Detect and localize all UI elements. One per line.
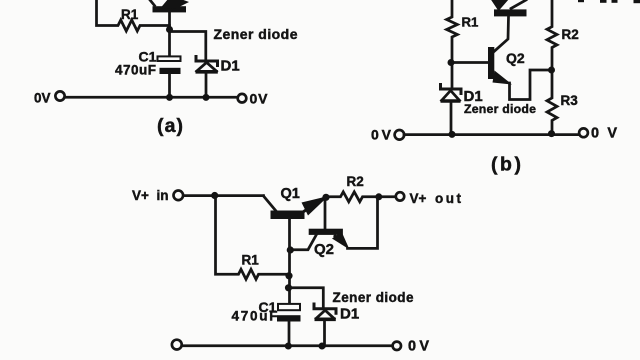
svg-text:R1: R1	[242, 253, 260, 268]
svg-text:0V: 0V	[408, 338, 429, 354]
svg-text:Zener diode: Zener diode	[333, 290, 414, 305]
svg-text:out: out	[435, 191, 462, 206]
svg-text:V+: V+	[132, 188, 149, 203]
svg-text:R2: R2	[562, 27, 579, 42]
svg-text:470uF: 470uF	[115, 63, 156, 78]
svg-text:Zener diode: Zener diode	[214, 26, 298, 42]
svg-text:Q1: Q1	[281, 186, 300, 202]
svg-text:Q2: Q2	[506, 50, 525, 66]
svg-text:R1: R1	[462, 15, 479, 30]
svg-text:(b): (b)	[491, 154, 521, 176]
svg-text:470uF: 470uF	[232, 309, 278, 324]
svg-text:R1: R1	[121, 7, 139, 22]
svg-text:Zener diode: Zener diode	[464, 102, 536, 116]
svg-text:V+: V+	[410, 191, 427, 206]
svg-text:D1: D1	[340, 305, 359, 322]
svg-text:Q2: Q2	[314, 241, 334, 258]
svg-text:(a): (a)	[157, 115, 183, 137]
svg-text:R2: R2	[347, 174, 364, 189]
svg-text:0V: 0V	[591, 126, 617, 142]
svg-text:0V: 0V	[34, 91, 51, 106]
svg-text:in: in	[157, 188, 169, 203]
svg-text:D1: D1	[221, 58, 240, 75]
svg-text:R3: R3	[561, 93, 579, 108]
svg-text:0V: 0V	[371, 127, 392, 143]
svg-text:0V: 0V	[250, 91, 269, 107]
